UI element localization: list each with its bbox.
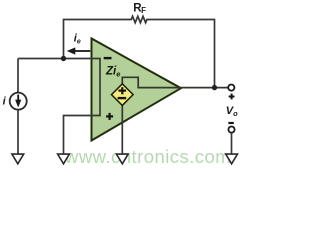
dependent source Zie diamond: [112, 84, 134, 106]
wire: left source branch top: [17, 59, 19, 93]
wire: left source branch bottom to ground: [17, 110, 19, 155]
op-amp minus input label: [104, 57, 112, 59]
ground G4 (output return): [226, 154, 238, 164]
wire: dependent source bottom to ground: [121, 105, 123, 155]
minus sign inside diamond: [118, 97, 127, 99]
node A junction dot (inverting input node): [61, 56, 66, 61]
wire: inverting input from source node through internal link to non-inverting input and ground: [18, 59, 100, 155]
plus sign inside diamond: [118, 90, 126, 92]
ground G2 (non-inverting input): [58, 154, 70, 164]
error current arrow ie: [75, 50, 91, 52]
current source i: [10, 93, 27, 110]
plus sign output: [229, 96, 235, 98]
op-amp U1 triangle body: [92, 39, 182, 141]
ground G3 (dependent source return): [116, 154, 128, 164]
output terminal bottom circle: [228, 127, 234, 133]
svg-text:www.cntronics.com: www.cntronics.com: [64, 146, 231, 167]
ground G1 (below current source): [12, 154, 24, 164]
wire: feedback loop with resistor RF: [64, 16, 215, 87]
output terminal top circle: [228, 85, 234, 91]
node B output junction dot: [212, 85, 217, 90]
op-amp plus input label: [106, 115, 113, 117]
wire: internal output staircase from dependent source to output: [122, 77, 228, 87]
wire: bottom terminal to ground: [231, 133, 233, 154]
minus sign output: [228, 122, 233, 124]
